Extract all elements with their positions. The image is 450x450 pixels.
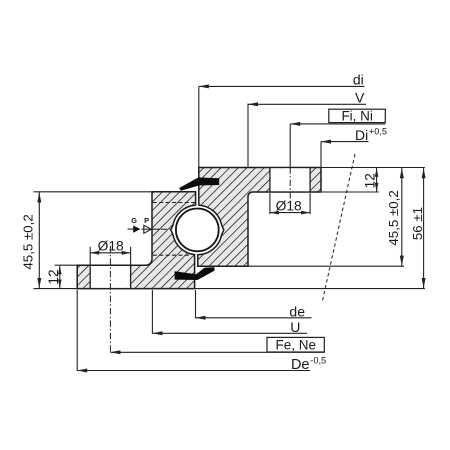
svg-text:Fi, Ni: Fi, Ni xyxy=(341,108,373,123)
bolt hole in outer-ring flange (left, O18) xyxy=(91,266,130,288)
extension line flange top to left xyxy=(55,264,78,266)
outer ring (lower-left, hatched section) xyxy=(77,192,195,289)
upper seal (black) xyxy=(179,177,219,190)
extension line inner ring bottom face to right xyxy=(249,265,405,267)
extension line x=248 (V) xyxy=(247,104,249,167)
svg-text:V: V xyxy=(355,90,365,106)
dimension V xyxy=(248,103,366,105)
dimension 12 (right flange thickness) xyxy=(376,168,378,193)
extension line x=77 (De) xyxy=(76,290,78,371)
dimension 12 (left flange thickness) xyxy=(59,265,61,288)
extension line outer ring top face to left xyxy=(34,191,153,193)
extension line x=199 (di) xyxy=(198,86,200,167)
svg-text:12: 12 xyxy=(363,173,378,188)
bolt hole in inner-ring flange (right, O18) xyxy=(271,168,310,191)
extension line x=152 (U) xyxy=(151,290,153,334)
extension line top face to right xyxy=(322,167,425,169)
dashed gear indication line xyxy=(322,154,355,303)
grease hole centreline xyxy=(161,228,172,230)
dimension Fe, Ne (boxed) xyxy=(110,351,324,353)
svg-text:56 ±1: 56 ±1 xyxy=(410,207,425,240)
svg-text:45,5 ±0,2: 45,5 ±0,2 xyxy=(21,214,36,269)
svg-text:de: de xyxy=(289,304,305,320)
svg-text:12: 12 xyxy=(46,269,61,284)
dimension de xyxy=(196,317,312,319)
svg-text:Di: Di xyxy=(355,127,368,143)
dimension Fi, Ni (boxed) xyxy=(290,123,385,125)
inner ring (upper-right, hatched section) xyxy=(198,168,321,267)
svg-text:G: G xyxy=(131,216,137,225)
ball (rolling element) xyxy=(176,209,219,252)
svg-text:-0,5: -0,5 xyxy=(310,356,326,366)
extension: flange right face up to Di line xyxy=(320,142,322,167)
dimension 45,5 ±0,2 (right) xyxy=(401,168,403,267)
svg-text:P: P xyxy=(144,216,149,225)
bottom face / extension line full width xyxy=(34,288,425,290)
dimension Di +0,5 xyxy=(321,141,369,143)
lower seal (black) xyxy=(175,267,215,280)
dimension O18 (left flange hole) xyxy=(89,247,91,265)
dimension O18 (right flange hole) xyxy=(269,193,271,214)
dimension 56 ±1 xyxy=(423,168,425,289)
svg-text:+0,5: +0,5 xyxy=(369,127,387,137)
svg-text:Ø18: Ø18 xyxy=(276,198,302,213)
hidden line, seal groove upper xyxy=(153,202,195,204)
dimension 45,5 ±0,2 (left) xyxy=(38,192,40,289)
extension line x=290 (Fi,Ni) + hole centreline xyxy=(289,124,291,167)
dimension U xyxy=(152,332,307,334)
svg-text:di: di xyxy=(353,72,364,88)
extension line x=195.5 (de) xyxy=(195,290,197,318)
dimension De -0,5 xyxy=(77,370,310,372)
svg-text:De: De xyxy=(291,357,310,373)
svg-text:45,5 ±0,2: 45,5 ±0,2 xyxy=(386,190,401,245)
svg-text:U: U xyxy=(290,319,300,335)
svg-text:Fe, Ne: Fe, Ne xyxy=(276,337,317,352)
extension line flange bottom to right xyxy=(322,191,379,193)
dimension di xyxy=(199,85,365,87)
hidden line, seal groove lower xyxy=(153,254,191,256)
left hole centreline xyxy=(109,246,111,353)
